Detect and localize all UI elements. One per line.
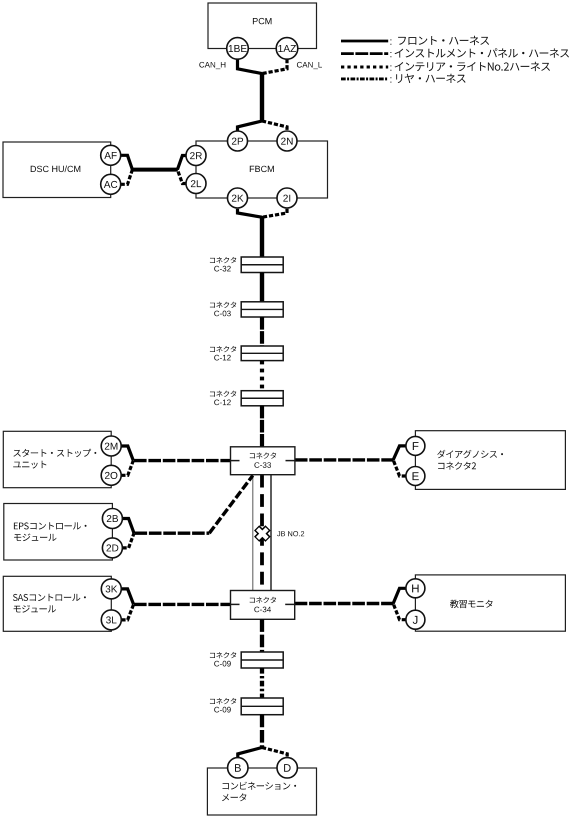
pin B bbox=[228, 758, 248, 778]
legend: front harness bbox=[341, 36, 489, 45]
connector C-32 bbox=[210, 257, 283, 273]
JB No.2 right rail bbox=[270, 475, 272, 591]
pin J bbox=[406, 610, 425, 629]
pin 2D bbox=[102, 538, 122, 558]
label CAN_L bbox=[297, 62, 322, 69]
wire DSC to FBCM trunk (front harness) bbox=[132, 168, 178, 172]
box FBCM bbox=[196, 141, 328, 198]
wire C-09 to C-09 (rear harness) bbox=[260, 668, 264, 698]
pin 3L bbox=[101, 610, 121, 630]
wire trunk PCM to FBCM bbox=[260, 73, 264, 123]
connector C-09 upper bbox=[210, 652, 283, 668]
box DSC HU/CM bbox=[3, 142, 111, 198]
connector C-12 upper bbox=[210, 346, 283, 361]
pin 2L bbox=[186, 174, 206, 194]
wire AC to DSC-FBCM merge bbox=[121, 170, 133, 185]
wire 2M to start-stop merge bbox=[121, 446, 133, 461]
pin 2P bbox=[228, 131, 248, 151]
box EPS control module bbox=[4, 504, 113, 561]
wire 2K to trunk bbox=[238, 209, 263, 217]
pin D bbox=[277, 758, 297, 778]
pin 3K bbox=[101, 579, 121, 599]
wire trunk to 2N bbox=[262, 121, 287, 131]
pin AC bbox=[101, 174, 121, 194]
wire EPS horizontal (instrument panel harness) bbox=[135, 532, 210, 535]
box diagnosis connector 2 bbox=[415, 431, 565, 490]
wire C-12 to C-12 (interior light No.2 harness) bbox=[260, 361, 264, 391]
junction JB NO.2 symbol bbox=[257, 528, 268, 539]
pin E bbox=[406, 467, 425, 486]
wire 1AZ to trunk (instrument panel harness) bbox=[262, 59, 287, 74]
wire merge to 2L bbox=[177, 170, 186, 184]
pin 2N bbox=[277, 131, 297, 151]
pin 2R bbox=[186, 146, 206, 166]
pin 2M bbox=[101, 436, 121, 456]
pin AF bbox=[101, 145, 121, 165]
wire C-12 to C-33 (instrument panel harness) bbox=[260, 406, 264, 448]
legend: interior light No.2 harness bbox=[341, 62, 550, 71]
connector C-03 bbox=[210, 302, 283, 317]
wire monitor merge to H bbox=[393, 588, 406, 603]
wire 2O to start-stop merge bbox=[121, 461, 133, 476]
box SAS control module bbox=[3, 576, 111, 631]
wire SAS to C-34 (instrument panel harness) bbox=[134, 603, 231, 606]
wire trunk FBCM to C-32 (front harness) bbox=[260, 216, 264, 258]
wire diagnosis merge to F bbox=[393, 446, 406, 460]
label CAN_H bbox=[199, 62, 225, 69]
connector C-12 lower bbox=[210, 391, 283, 406]
wire AF to DSC-FBCM merge bbox=[121, 155, 133, 169]
connector C-33 bbox=[231, 447, 295, 475]
wire C-33 to C-34 through JB No.2 (instrument panel harness) bbox=[260, 475, 264, 532]
wire merge to 2R bbox=[177, 156, 186, 170]
wire start-stop to C-33 (instrument panel harness) bbox=[134, 459, 231, 462]
wire C-32 to C-03 (front harness) bbox=[260, 273, 264, 303]
pin 2B bbox=[102, 509, 122, 529]
pin 2K bbox=[228, 188, 248, 208]
label JB NO.2 bbox=[277, 531, 304, 536]
wire diagnosis merge to E bbox=[393, 460, 406, 476]
pin 1AZ bbox=[276, 38, 298, 60]
box PCM bbox=[208, 3, 317, 49]
connector C-34 bbox=[231, 591, 295, 620]
wire 3L to SAS merge bbox=[121, 604, 133, 620]
pin 2I bbox=[277, 188, 297, 208]
legend: instrument panel harness bbox=[341, 48, 569, 57]
wire monitor merge to J bbox=[393, 604, 406, 620]
wire trunk to B bbox=[238, 748, 262, 758]
box start-stop unit bbox=[3, 431, 111, 487]
wire C-34 to C-09 (instrument panel harness) bbox=[260, 619, 264, 652]
connector C-09 lower bbox=[210, 698, 283, 715]
wire trunk to 2P bbox=[238, 121, 263, 131]
legend: rear harness bbox=[341, 74, 466, 83]
pin 1BE bbox=[227, 38, 249, 60]
wire trunk to D bbox=[262, 748, 287, 758]
wire 1BE to trunk (front harness) bbox=[238, 59, 263, 74]
wire EPS diagonal to C-33 (instrument panel harness) bbox=[209, 476, 253, 534]
wire 2B to EPS merge bbox=[123, 519, 135, 534]
box combination meter bbox=[207, 768, 316, 815]
pin F bbox=[406, 436, 425, 455]
JB No.2 left rail bbox=[252, 475, 254, 591]
wire C-03 to C-12 (instrument panel harness) bbox=[260, 317, 264, 346]
wire C-09 to combination meter (instrument panel harness) bbox=[260, 715, 264, 749]
pin 2O bbox=[101, 465, 121, 485]
pin H bbox=[406, 579, 425, 598]
wire 2I to trunk bbox=[262, 209, 287, 217]
wire 3K to SAS merge bbox=[121, 589, 133, 605]
wire 2D to EPS merge bbox=[123, 533, 135, 548]
box training monitor bbox=[415, 575, 565, 631]
wire C-34 to monitor (instrument panel harness) bbox=[295, 602, 394, 605]
wire C-33 to diagnosis (instrument panel harness) bbox=[295, 458, 394, 461]
